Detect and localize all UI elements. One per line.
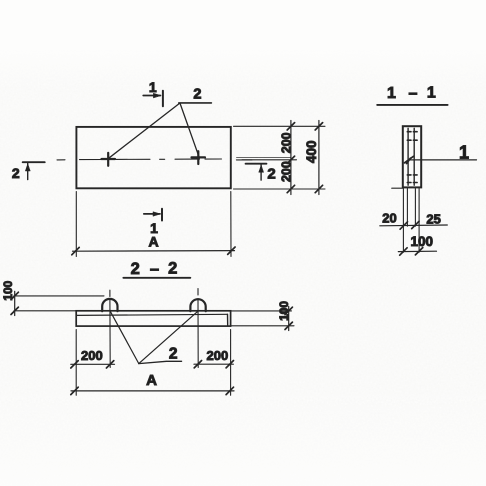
svg-text:1: 1 [459,142,469,162]
svg-text:2: 2 [168,259,177,277]
bar hooks top [407,132,417,141]
leader slash [405,156,414,163]
right dim line 100 [288,307,290,331]
dim line A [71,390,234,392]
svg-text:1: 1 [427,85,436,102]
svg-text:2: 2 [193,86,201,102]
slab inner top line [77,314,228,315]
leader line to left anchor [109,104,180,159]
svg-text:100: 100 [277,301,291,321]
tick [412,221,419,228]
tick [71,387,78,394]
svg-text:A: A [146,372,157,389]
leader to left loop [110,311,139,363]
loop axis left [109,290,111,367]
section mark 2 left [23,161,45,163]
anchor cross right [192,151,206,164]
right extension bottom [234,188,326,190]
plan bottom extension left [75,192,77,257]
svg-text:2: 2 [267,166,275,183]
slab right seam [227,314,229,325]
plan bottom extension right [230,192,232,257]
section mark 2 right [246,163,267,165]
svg-text:200: 200 [279,132,293,153]
centerline plan [57,158,252,161]
leader line 1 [410,159,477,161]
tick [415,248,422,255]
tick [287,156,294,163]
tick [285,322,292,329]
title underline 2-2 [123,277,190,279]
tick [226,387,233,394]
svg-text:–: – [409,85,418,102]
svg-text:100: 100 [1,280,15,300]
leader line to right anchor [180,104,199,157]
tick [11,292,18,299]
title underline 1-1 [377,104,447,106]
plate outline plan [76,127,230,188]
leader to right loop [139,311,198,363]
plan dim line A [73,250,235,253]
loop bar dashed right [413,128,415,185]
tick [194,361,201,368]
left ext slab top [14,310,76,312]
tick [226,361,233,368]
anchor cross left [102,153,116,166]
ext slab right edge down [230,330,232,396]
right ext slab bottom [231,325,294,327]
section body 1-1 [403,126,421,187]
dim line 200/200 [290,121,292,195]
section mark 1 bottom [144,213,160,215]
slab section outline [76,311,230,326]
svg-text:400: 400 [304,141,319,164]
svg-text:1: 1 [387,85,396,102]
centerline tail right [237,156,292,158]
svg-text:100: 100 [411,234,434,249]
right extension top [234,125,326,127]
loop bar dashed left [407,128,409,185]
leader shelf 2 [139,361,182,363]
tick [287,185,294,192]
ext slab left edge down [75,330,77,396]
svg-text:200: 200 [279,161,293,182]
tick [285,307,292,314]
tick [11,307,18,314]
svg-text:1: 1 [149,79,157,95]
svg-text:2: 2 [131,260,140,278]
tick [106,361,113,368]
extension lines below [402,189,404,253]
stub line bottom-left [392,187,403,189]
tick [72,247,79,254]
dim line 200 right [194,363,233,365]
bar hooks bottom [407,175,417,183]
leader 2 shelf [179,102,212,104]
dim line 400 [318,121,320,195]
dim line 200 left [71,363,115,365]
tick [228,247,235,254]
svg-text:200: 200 [207,348,229,363]
dim line 100 [398,250,436,252]
svg-text:2: 2 [169,346,178,363]
svg-text:25: 25 [426,211,440,226]
left ext loop top [14,295,104,297]
tick [315,185,322,192]
tick [400,222,407,229]
dim line 20/25 [380,224,448,227]
svg-text:–: – [150,260,159,278]
svg-text:200: 200 [81,348,103,363]
svg-text:20: 20 [382,211,396,226]
right extension mid [242,159,297,161]
lifting loop right [190,299,205,311]
lifting loop left [102,299,117,311]
loop axis right [197,289,199,368]
right ext slab top [231,310,292,312]
tick [315,123,322,130]
section mark 1 top [143,95,160,97]
tick [71,361,78,368]
tick [400,248,407,255]
svg-text:A: A [149,234,159,250]
tick [287,123,294,130]
left dim line 100 [14,291,16,315]
svg-text:2: 2 [12,165,20,181]
